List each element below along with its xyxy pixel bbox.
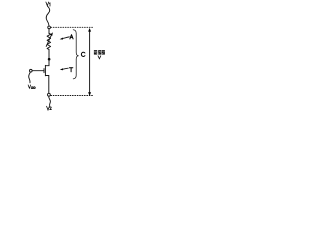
- transistor T gate bar: [43, 69, 45, 73]
- wire gate lead: [32, 70, 44, 72]
- transistor T channel bar: [44, 65, 46, 75]
- junction dot: [48, 58, 51, 61]
- wire squiggle below gate terminal: [29, 72, 31, 83]
- pointer arrow A: [62, 37, 69, 39]
- wire node to resistor: [48, 29, 50, 34]
- dimension line for voltage: [89, 31, 91, 93]
- label V2: [47, 106, 52, 110]
- dotted measurement line lower: [51, 95, 94, 97]
- wire resistor to junction: [48, 49, 50, 58]
- label 電位差 (drawn glyph blobs): [94, 50, 105, 55]
- label C: [81, 52, 85, 56]
- label T: [69, 68, 72, 72]
- pointer arrow T: [62, 68, 68, 69]
- brace C: [73, 30, 78, 79]
- gate terminal circle: [30, 69, 33, 72]
- wire squiggle below bottom node: [49, 96, 51, 106]
- wire squiggle from V1 to top node: [46, 6, 49, 26]
- wire drain lead: [45, 59, 49, 65]
- node top terminal circle: [48, 26, 51, 29]
- arrowhead up: [88, 28, 91, 32]
- wire source lead: [45, 76, 48, 94]
- label VGG: [28, 85, 35, 89]
- resistor A (variable) zigzag: [47, 33, 51, 49]
- arrowhead down: [88, 92, 91, 96]
- label A: [70, 35, 73, 39]
- dotted measurement line upper: [51, 26, 94, 28]
- label V1: [46, 2, 50, 6]
- node bottom terminal circle: [48, 93, 51, 96]
- variable-resistor diagonal arrow: [46, 35, 51, 47]
- label V (voltage): [98, 56, 101, 59]
